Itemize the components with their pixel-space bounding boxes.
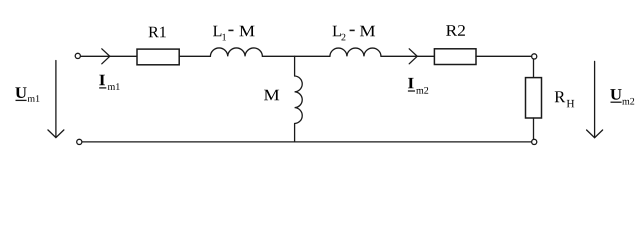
resistor RH (vertical) [526,78,542,118]
label: U_m1 [15,87,39,101]
label: I_m1 [99,75,119,90]
arrow: current I_m1 arrowhead [102,49,110,64]
node: top-left terminal [75,53,80,58]
wire: L1-M coil to middle junction to L2-M coil [262,55,330,57]
arrow: voltage U_m1 (down) [48,61,64,138]
label: R_H [555,91,575,107]
node: bottom-right terminal [532,139,537,144]
wire: M coil down to bottom rail [294,124,296,142]
wire: bottom rail [82,141,531,143]
label: R2 [446,25,465,36]
inductor L1-M [210,48,262,56]
inductor L2-M [330,48,381,56]
wire: top-left terminal to R1 [81,55,137,57]
wire: L2-M coil to R2 [381,55,434,57]
label: R1 [149,27,166,38]
arrow: current I_m2 arrowhead [409,49,417,64]
label: M [264,90,279,100]
resistor R2 [434,49,476,65]
wire: R2 to top-right terminal [476,55,532,57]
label: L1 - M [213,26,255,41]
wire: RH down to bottom-right terminal [533,118,535,139]
inductor M (vertical) [295,76,303,123]
label: U_m2 [610,89,634,104]
label: L2 - M [333,26,376,41]
arrow: voltage U_m2 (down) [587,61,603,137]
resistor R1 [137,49,179,65]
node: top-right terminal [532,54,537,59]
node: bottom-left terminal [77,139,82,144]
label: I_m2 [408,78,428,94]
wire: R1 to L1-M coil [179,55,210,57]
wire: junction down to M coil [294,56,296,76]
wire: top-right terminal down to RH [533,59,535,78]
